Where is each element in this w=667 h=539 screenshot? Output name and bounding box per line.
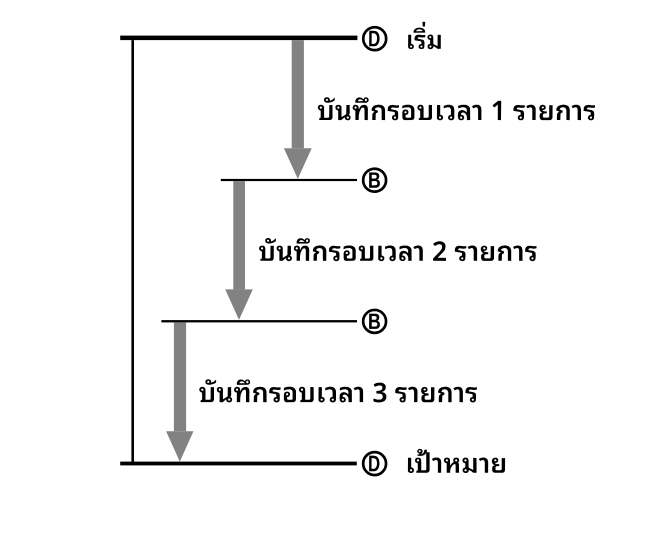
circle D top: [363, 27, 386, 50]
level line 2: [221, 179, 357, 181]
label text line 2: [259, 238, 536, 261]
label start: [408, 22, 441, 49]
label text line 3: [199, 379, 477, 402]
letter D top: [369, 31, 379, 47]
gray arrow 1: [292, 40, 304, 148]
letter B level 2: [369, 172, 380, 187]
label text line 1: [318, 97, 595, 120]
circle B level 2: [363, 169, 386, 192]
letter B level 3: [369, 314, 380, 329]
label goal: [408, 449, 505, 473]
gray arrow 3: [174, 322, 186, 431]
left vertical axis line: [131, 40, 134, 462]
circle D bottom: [363, 452, 386, 475]
letter D bottom: [369, 456, 379, 472]
top level line (start): [120, 36, 357, 41]
level line 3: [161, 320, 357, 322]
gray arrow 2: [233, 181, 245, 289]
bottom level line (goal): [120, 462, 357, 466]
circle B level 3: [363, 310, 386, 333]
